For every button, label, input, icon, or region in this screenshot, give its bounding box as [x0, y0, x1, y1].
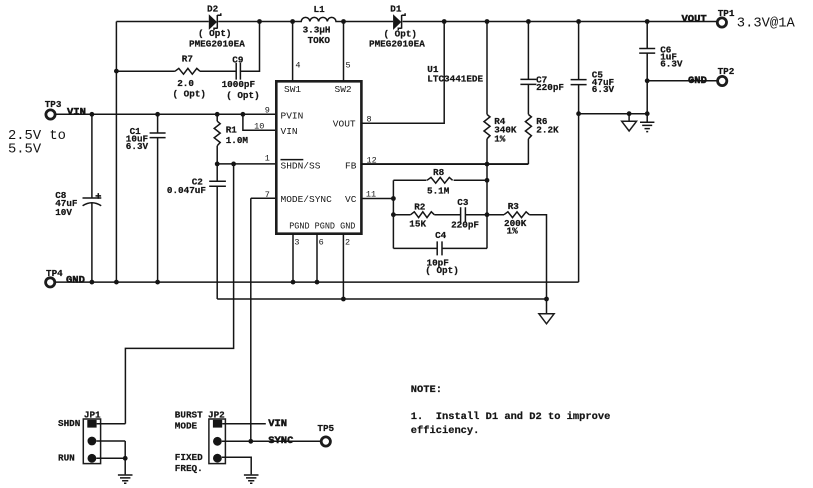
svg-text:C9: C9 — [232, 54, 244, 65]
wire C3 to comp rail — [465, 214, 487, 216]
ground (chassis bars) under JP1 — [118, 475, 133, 483]
svg-text:SYNC: SYNC — [268, 435, 294, 447]
junction C9 riser on SW1 segment — [257, 19, 262, 24]
test point TP2 — [718, 76, 727, 85]
JP2 pin 2 round pad — [213, 437, 222, 446]
svg-text:LTC3441EDE: LTC3441EDE — [427, 74, 483, 85]
svg-text:GND: GND — [66, 274, 85, 286]
svg-text:efficiency.: efficiency. — [411, 425, 480, 437]
svg-text:6: 6 — [319, 238, 324, 248]
wire pin 3 stub (PGND) — [292, 234, 294, 282]
wire VC line (pin 11) — [361, 198, 393, 200]
junction SYNC line / MODE riser — [248, 439, 253, 444]
svg-text:BURST: BURST — [175, 409, 203, 420]
ground (signal) triangle under R3 riser — [539, 314, 554, 324]
svg-text:MODE/SYNC: MODE/SYNC — [281, 194, 333, 205]
wire C5 bottom to GND rail end — [578, 85, 580, 283]
wire C6 riser top — [646, 22, 648, 49]
wire C1 top lead — [157, 114, 159, 133]
wire pin 2 stub (GND) down to signal ground line — [342, 234, 344, 299]
svg-text:3: 3 — [294, 238, 299, 248]
JP1 pin 3 round pad — [88, 454, 97, 463]
connector JP2 outline — [209, 419, 226, 464]
junction L1 left / pin 4 — [290, 19, 295, 24]
junction comp rail / R2 C3 R3 — [485, 212, 490, 217]
svg-text:SHDN/SS: SHDN/SS — [281, 160, 321, 171]
svg-text:RUN: RUN — [58, 453, 75, 464]
svg-text:PVIN: PVIN — [281, 110, 304, 121]
wire pin 4 stub (SW1) — [292, 22, 294, 82]
wire JP2 pin2 SYNC line to TP5 — [222, 440, 321, 442]
junction signal ground / pin2 — [341, 297, 346, 302]
wire pin 5 stub (SW2) — [343, 22, 345, 82]
junction comp rail / R8 — [485, 178, 490, 183]
test point TP3 — [46, 110, 55, 119]
resistor R1 — [214, 121, 220, 146]
svg-text:D2: D2 — [207, 4, 219, 15]
svg-text:R1: R1 — [226, 125, 238, 136]
junction ground symbol line / triangle gnd — [627, 111, 632, 116]
capacitor C9 — [236, 63, 240, 80]
capacitor C1 — [150, 133, 166, 138]
wire TP2 GND spur — [647, 80, 717, 82]
svg-text:10: 10 — [254, 122, 264, 132]
wire C6 bottom lead — [646, 53, 648, 114]
svg-text:NOTE:: NOTE: — [411, 384, 442, 396]
svg-text:D1: D1 — [390, 4, 402, 15]
wire R2 line left — [393, 214, 410, 216]
svg-text:TP1: TP1 — [718, 8, 735, 19]
wire JP1 pin1 to SHDN riser — [97, 423, 126, 425]
resistor R2 — [411, 212, 435, 218]
wire C7 to R6 — [527, 84, 529, 114]
junction VIN / pin10 riser — [241, 112, 246, 117]
svg-text:5.5V: 5.5V — [8, 143, 42, 158]
svg-text:TP5: TP5 — [317, 423, 334, 434]
svg-text:R3: R3 — [508, 201, 520, 212]
junction VOUT rail / R4 — [485, 19, 490, 24]
junction VOUT rail / pin8 riser — [442, 19, 447, 24]
svg-text:PMEG2010EA: PMEG2010EA — [189, 39, 245, 50]
wire pin 10 jog — [243, 114, 276, 130]
junction GND / C8 — [90, 280, 95, 285]
junction GND / C1 — [155, 280, 160, 285]
junction GND / D2-R7 riser — [114, 280, 119, 285]
wire C4 line right — [442, 247, 487, 249]
wire C2 top lead — [216, 164, 218, 181]
svg-text:6.3V: 6.3V — [660, 59, 683, 70]
svg-text:6.3V: 6.3V — [592, 84, 615, 95]
svg-text:JP2: JP2 — [208, 409, 225, 420]
wire R8 line left — [393, 179, 426, 181]
junction left rail / VC — [391, 196, 396, 201]
junction VIN / R1 — [215, 112, 220, 117]
svg-text:MODE: MODE — [175, 420, 198, 431]
svg-text:( Opt): ( Opt) — [173, 89, 206, 100]
svg-text:PMEG2010EA: PMEG2010EA — [369, 39, 425, 50]
wire JP1 pin3 — [96, 457, 125, 459]
svg-text:VIN: VIN — [268, 418, 287, 430]
inductor L1 — [293, 17, 344, 21]
svg-text:15K: 15K — [409, 218, 426, 229]
capacitor C4 — [437, 241, 442, 255]
junction VOUT rail / C6 — [645, 19, 650, 24]
test point TP5 — [321, 437, 330, 446]
junction FB / R4 / comp rail — [485, 162, 490, 167]
junction GND / pin3 — [291, 280, 296, 285]
wire R7 to C9 — [200, 70, 236, 72]
svg-text:3.3V@1A: 3.3V@1A — [737, 16, 796, 32]
svg-text:1: 1 — [265, 154, 270, 164]
resistor R4 — [484, 114, 490, 138]
wire JP1 riser (SHDN line down) — [125, 164, 233, 424]
svg-text:220pF: 220pF — [451, 220, 479, 231]
wire R8 line right — [454, 179, 487, 181]
svg-text:( Opt): ( Opt) — [226, 90, 259, 101]
wire SHDN/SS line (pin 1) — [217, 163, 276, 165]
svg-text:FB: FB — [345, 160, 357, 171]
wire JP1 ground stub — [124, 458, 126, 474]
capacitor C2 — [209, 181, 226, 186]
junction left rail / R2 line — [391, 212, 396, 217]
junction VIN / C8 — [90, 112, 95, 117]
svg-text:C4: C4 — [435, 230, 447, 241]
junction SHDN / JP1 riser — [231, 162, 236, 167]
wire VIN line (TP3 to PVIN pin 9) — [56, 113, 276, 115]
JP2 pin 3 round pad — [213, 454, 222, 463]
junction C5 riser / ground symbol line — [576, 111, 581, 116]
wire GND rail — [56, 281, 579, 283]
wire JP1 pin2-pin3 tie — [124, 441, 126, 458]
wire pin 6 stub (PGND) — [316, 234, 318, 282]
svg-text:4: 4 — [295, 61, 300, 71]
svg-text:5: 5 — [346, 61, 351, 71]
svg-text:R2: R2 — [414, 201, 426, 212]
wire R4 riser top — [486, 22, 488, 115]
svg-text:R8: R8 — [433, 167, 445, 178]
wire C5 riser top — [578, 22, 580, 80]
wire C4 line left — [393, 247, 437, 249]
wire C2 bottom lead to signal gnd line — [216, 186, 218, 299]
junction L1 right / pin 5 — [341, 19, 346, 24]
svg-text:2.0: 2.0 — [177, 78, 194, 89]
wire R6 bottom to FB line — [527, 139, 529, 164]
svg-text:VOUT: VOUT — [333, 118, 356, 129]
svg-text:0.047uF: 0.047uF — [167, 185, 206, 196]
svg-text:1%: 1% — [494, 134, 506, 145]
junction SHDN / R1 / C2 — [215, 162, 220, 167]
junction VOUT rail / C7 — [526, 19, 531, 24]
svg-text:SW1: SW1 — [284, 84, 301, 95]
svg-text:C3: C3 — [457, 197, 469, 208]
svg-text:TP2: TP2 — [718, 66, 735, 77]
wire GND riser for D2/R7 (top rail to GND rail) — [115, 22, 117, 283]
svg-text:10V: 10V — [55, 207, 72, 218]
JP1 pin 2 round pad — [88, 437, 97, 446]
wire C1 bottom lead — [157, 138, 159, 283]
svg-text:2: 2 — [345, 238, 350, 248]
wire comp rail to R3 — [487, 214, 504, 216]
junction VIN / C1 — [155, 112, 160, 117]
diode D1 — [393, 13, 405, 30]
svg-text:TOKO: TOKO — [308, 35, 331, 46]
connector JP1 outline — [83, 419, 100, 464]
capacitor C8 (polarized) — [83, 193, 102, 206]
wire C9 to riser — [240, 22, 259, 72]
wire R1 bottom lead — [216, 146, 218, 164]
wire JP2 pin1 to VIN label — [222, 423, 266, 425]
svg-text:1.0M: 1.0M — [226, 135, 249, 146]
junction C6 riser / TP2 wire — [645, 78, 650, 83]
wire R3 right to riser — [529, 215, 546, 314]
junction ground symbol line / chassis bars — [645, 111, 650, 116]
svg-text:FIXED: FIXED — [175, 452, 203, 463]
wire comp right rail (R4 bottom through FB to C4 line) — [486, 139, 488, 249]
wire JP2 pin3 to ground — [222, 457, 251, 474]
resistor R3 — [504, 212, 529, 218]
wire C8 bottom lead — [91, 203, 93, 282]
svg-text:SW2: SW2 — [335, 84, 352, 95]
wire MODE/SYNC riser down to SYNC line — [250, 198, 252, 441]
diode D2 — [209, 13, 221, 30]
svg-text:TP4: TP4 — [46, 268, 63, 279]
capacitor C3 — [461, 207, 466, 222]
resistor R8 — [427, 177, 453, 183]
wire MODE/SYNC line (pin 7) — [251, 197, 276, 199]
wire comp left rail — [392, 180, 394, 248]
wire FB line (pin 12) — [361, 163, 528, 165]
svg-text:TP3: TP3 — [45, 99, 62, 110]
wire signal ground line (C2 to R3 riser) — [217, 298, 546, 300]
svg-text:1. Install D1 and D2 to impro: 1. Install D1 and D2 to improve — [411, 411, 611, 423]
wire SW2 node to D1 anode — [344, 21, 394, 23]
junction GND / pin6 — [315, 280, 320, 285]
svg-text:1000pF: 1000pF — [222, 79, 256, 90]
svg-text:VIN: VIN — [281, 126, 298, 137]
wire D2 cathode to SW1 node — [218, 21, 292, 23]
wire top rail left segment (GND riser to D2 anode) — [116, 21, 208, 23]
junction R7 line on riser — [114, 69, 119, 74]
svg-text:FREQ.: FREQ. — [175, 463, 203, 474]
svg-text:GND: GND — [688, 75, 707, 87]
svg-text:VOUT: VOUT — [682, 13, 707, 25]
capacitor C5 — [571, 80, 587, 85]
svg-text:JP1: JP1 — [84, 409, 101, 420]
wire C8 top lead — [91, 114, 93, 198]
svg-text:1%: 1% — [507, 226, 519, 237]
ground (chassis bars) under JP2 — [244, 475, 259, 483]
wire R1 top lead — [216, 114, 218, 121]
chip pin label SHDN/SS with overline — [281, 160, 321, 172]
op-amp-like IC U1 LTC3441EDE outline — [276, 81, 361, 233]
junction JP1 pin3 / ground stub — [123, 456, 128, 461]
svg-text:7: 7 — [265, 190, 270, 200]
svg-text:R7: R7 — [182, 54, 193, 65]
test point TP4 — [46, 278, 55, 287]
test point TP1 — [717, 18, 726, 27]
ground (signal) triangle near C6 — [622, 114, 637, 131]
svg-text:9: 9 — [265, 105, 270, 115]
resistor R7 — [175, 68, 200, 74]
JP2 pin 1 square pad — [213, 420, 222, 428]
svg-text:( Opt): ( Opt) — [425, 265, 458, 276]
svg-text:L1: L1 — [314, 4, 326, 15]
wire pin 8 VOUT to riser — [361, 22, 444, 124]
wire C7 riser top — [527, 22, 529, 80]
svg-text:VIN: VIN — [67, 106, 86, 118]
capacitor C6 — [639, 49, 655, 54]
wire JP1 pin2 — [96, 440, 125, 442]
svg-text:VC: VC — [345, 194, 357, 205]
svg-text:2.2K: 2.2K — [536, 125, 559, 136]
resistor R6 — [525, 114, 531, 138]
wire R2 to C3 — [434, 214, 460, 216]
capacitor C7 — [520, 79, 536, 84]
wire ground symbol line — [579, 113, 648, 115]
svg-text:SHDN: SHDN — [58, 418, 80, 429]
junction R3 riser / signal gnd line — [544, 297, 549, 302]
JP1 pin 1 square pad — [87, 420, 96, 428]
svg-text:5.1M: 5.1M — [427, 186, 450, 197]
ground (chassis bars) near C6 — [640, 114, 654, 132]
svg-text:6.3V: 6.3V — [126, 141, 149, 152]
junction VOUT rail / C5 — [576, 19, 581, 24]
svg-text:220pF: 220pF — [536, 82, 564, 93]
svg-text:( Opt): ( Opt) — [198, 28, 231, 39]
wire VOUT rail (D1 cathode to TP1) — [403, 21, 717, 23]
svg-text:PGND PGND GND: PGND PGND GND — [289, 220, 355, 231]
wire R7 snubber line left — [116, 70, 174, 72]
